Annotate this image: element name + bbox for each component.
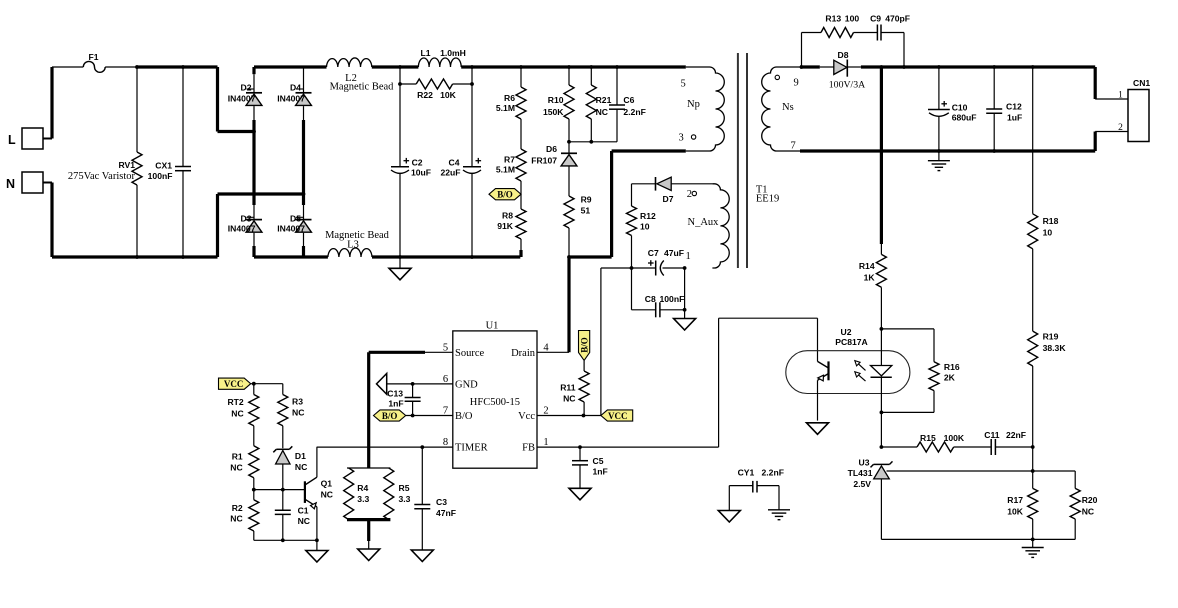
- wire drain column: [567, 257, 570, 352]
- junction snubber right: [902, 65, 906, 69]
- svg-text:F1: F1: [88, 52, 98, 62]
- wire AC-N to bridge: [218, 192, 304, 195]
- resistor R18 10: [1028, 67, 1059, 249]
- wire aux VCC tap: [601, 268, 632, 416]
- svg-text:R7: R7: [504, 155, 515, 165]
- capacitor C5 1nF: [572, 447, 608, 488]
- junction R17 bottom: [1031, 538, 1035, 542]
- svg-text:2: 2: [687, 189, 692, 200]
- svg-text:RV1: RV1: [118, 160, 135, 170]
- capacitor C1 NC: [275, 490, 310, 541]
- svg-text:R14: R14: [859, 261, 875, 271]
- wire C7-C8 left link: [631, 268, 633, 310]
- junction base row left: [252, 488, 256, 492]
- svg-text:Q1: Q1: [321, 479, 333, 489]
- svg-text:C2: C2: [412, 158, 423, 168]
- diode D1 NC zener: [273, 446, 307, 489]
- resistor R5 3.3: [384, 468, 411, 520]
- svg-text:470pF: 470pF: [885, 14, 910, 24]
- svg-text:TL431: TL431: [848, 468, 873, 478]
- capacitor C8 100nF: [632, 294, 685, 317]
- svg-text:10: 10: [640, 222, 650, 232]
- junction CX1 top: [181, 65, 185, 69]
- svg-text:PC817A: PC817A: [835, 337, 867, 347]
- svg-text:R18: R18: [1043, 216, 1059, 226]
- svg-text:NC: NC: [230, 463, 242, 473]
- inductor L2 Magnetic Bead: [327, 58, 395, 93]
- svg-text:R11: R11: [560, 383, 576, 393]
- svg-text:IN4007: IN4007: [228, 94, 256, 104]
- net flag B/O above R11: [579, 331, 590, 361]
- inductor L3 Magnetic Bead: [325, 230, 390, 257]
- junction C2 bottom: [398, 255, 402, 259]
- ground CY1 left: [718, 511, 740, 523]
- resistor R4 3.3: [344, 468, 370, 520]
- resistor R1 NC: [230, 446, 259, 490]
- svg-text:47uF: 47uF: [664, 248, 684, 258]
- capacitor C10 680uF: [928, 67, 977, 151]
- svg-text:C11: C11: [984, 430, 1000, 440]
- resistor R7 5.1M: [496, 119, 526, 181]
- ground aux: [674, 310, 696, 330]
- diode D8 100V/3A: [820, 50, 865, 91]
- svg-text:R9: R9: [581, 195, 592, 205]
- svg-text:R2: R2: [232, 503, 243, 513]
- svg-text:51: 51: [581, 206, 591, 216]
- junction C12 bottom: [992, 149, 996, 153]
- wire DC bus rail: [461, 65, 686, 68]
- wire N bottom rail: [52, 255, 218, 258]
- svg-text:2.2nF: 2.2nF: [623, 107, 645, 117]
- resistor R21 NC: [586, 67, 611, 142]
- svg-text:2.5V: 2.5V: [853, 479, 871, 489]
- svg-text:NC: NC: [563, 394, 575, 404]
- svg-text:GND: GND: [455, 380, 478, 391]
- svg-text:5.1M: 5.1M: [496, 165, 515, 175]
- snubber R13 100: [802, 14, 878, 68]
- svg-text:680uF: 680uF: [952, 113, 977, 123]
- wire CN1 pin1 drop: [1095, 67, 1128, 99]
- wire R4R5 gnd stub: [367, 520, 370, 549]
- junction base row right: [281, 488, 285, 492]
- net flag B/O at pin7: [374, 410, 406, 421]
- resistor R10 150K: [543, 67, 574, 142]
- svg-text:NC: NC: [231, 409, 243, 419]
- svg-text:B/O: B/O: [455, 411, 473, 422]
- wire AC-N corner up: [216, 194, 219, 257]
- wire U1 vcc pin2: [537, 415, 601, 417]
- svg-text:B/O: B/O: [382, 411, 398, 421]
- capacitor C13 1nF: [387, 384, 420, 416]
- connector CN1: [1118, 78, 1150, 142]
- svg-text:R19: R19: [1043, 332, 1059, 342]
- svg-text:FR107: FR107: [531, 156, 557, 166]
- svg-text:R8: R8: [502, 211, 513, 221]
- svg-text:Np: Np: [687, 99, 700, 110]
- resistor R12 10: [627, 184, 656, 268]
- junction R6 top: [519, 65, 523, 69]
- svg-text:NC: NC: [1082, 507, 1094, 517]
- ground Q1: [306, 540, 328, 562]
- wire R4R5 top bar: [347, 467, 390, 469]
- svg-text:10K: 10K: [1007, 507, 1024, 517]
- wire R4R5 bottom bar: [347, 518, 390, 521]
- wire clamp node bar: [569, 141, 617, 143]
- junction aux pin1 node: [683, 266, 687, 270]
- wire N stub: [43, 182, 52, 184]
- svg-text:U3: U3: [859, 458, 870, 468]
- capacitor C3 47nF: [414, 447, 456, 550]
- wire U1 timer pin8: [317, 446, 453, 448]
- svg-text:2: 2: [1118, 123, 1123, 133]
- wire U1 source pin5: [369, 351, 453, 353]
- junction RV1 top: [135, 65, 139, 69]
- svg-text:10uF: 10uF: [411, 168, 431, 178]
- junction C2 top: [398, 65, 402, 69]
- wire U1 b/o pin7: [406, 415, 453, 417]
- svg-text:91K: 91K: [497, 221, 514, 231]
- svg-text:D5: D5: [290, 214, 301, 224]
- svg-text:1K: 1K: [864, 273, 876, 283]
- junction RV1 bottom: [135, 255, 139, 259]
- net flag VCC at pin2: [601, 410, 633, 421]
- svg-text:1: 1: [1118, 91, 1123, 101]
- resistor R20 NC: [1070, 471, 1097, 539]
- svg-text:9: 9: [794, 78, 799, 89]
- junction R21 top: [589, 65, 593, 69]
- svg-text:NC: NC: [292, 408, 304, 418]
- svg-text:TIMER: TIMER: [455, 443, 488, 454]
- ground arrow U1 GND: [377, 374, 387, 395]
- wire N vertical: [50, 183, 53, 258]
- wire bridge top rail: [254, 65, 327, 68]
- svg-text:B/O: B/O: [497, 190, 513, 200]
- svg-text:1: 1: [686, 251, 691, 262]
- svg-text:D8: D8: [838, 50, 849, 60]
- svg-text:3: 3: [679, 133, 684, 144]
- junction R22 right: [470, 82, 474, 86]
- wire secondary gnd row: [881, 538, 1075, 540]
- wire LED feed column: [880, 67, 883, 244]
- diode D4 IN4007: [277, 67, 311, 105]
- ground opto emitter: [807, 423, 829, 435]
- junction R10 top: [567, 65, 571, 69]
- junction C8 right: [683, 308, 687, 312]
- wire bottom rail L3 to R8: [372, 255, 520, 258]
- svg-text:100V/3A: 100V/3A: [829, 80, 865, 91]
- svg-text:275Vac Varistor: 275Vac Varistor: [68, 171, 136, 182]
- wire TL431 anode: [880, 479, 882, 540]
- junction clamp R21: [589, 140, 593, 144]
- svg-text:10: 10: [1043, 228, 1053, 238]
- svg-text:R21: R21: [596, 95, 612, 105]
- transformer T1 primary Np: [679, 67, 725, 151]
- svg-text:C6: C6: [623, 95, 634, 105]
- junction C5 top: [578, 445, 582, 449]
- svg-text:R5: R5: [399, 483, 410, 493]
- resistor R17 10K: [1007, 471, 1037, 539]
- capacitor C6 2.2nF: [609, 67, 646, 142]
- opto light arrows: [855, 361, 866, 382]
- capacitor C11 22nF: [984, 430, 1032, 455]
- svg-text:EE19: EE19: [756, 193, 779, 204]
- svg-text:2: 2: [543, 406, 548, 417]
- svg-text:47nF: 47nF: [436, 508, 456, 518]
- svg-text:R17: R17: [1007, 495, 1023, 505]
- wire top rail thick: [136, 65, 218, 68]
- svg-text:100: 100: [845, 14, 860, 24]
- wire AC-L to bridge: [218, 130, 255, 133]
- resistor R16 2K: [881, 329, 959, 413]
- junction clamp R10: [567, 140, 571, 144]
- svg-text:100K: 100K: [944, 433, 965, 443]
- svg-text:NC: NC: [295, 462, 307, 472]
- svg-text:7: 7: [443, 406, 448, 417]
- capacitor C7 47uF: [648, 248, 685, 276]
- svg-text:Vcc: Vcc: [518, 411, 535, 422]
- diode D6 FR107: [531, 142, 577, 166]
- svg-text:L3: L3: [347, 240, 359, 251]
- diode D3 IN4007: [228, 214, 262, 234]
- transformer core: [738, 53, 747, 268]
- wire aux node row: [632, 267, 656, 269]
- svg-text:150K: 150K: [543, 107, 564, 117]
- earth CY1 right: [768, 510, 790, 520]
- resistor R9 51: [564, 166, 592, 257]
- wire base row: [254, 489, 305, 491]
- junction bridge L input: [252, 130, 256, 134]
- svg-text:1.0mH: 1.0mH: [440, 48, 466, 58]
- label pin 1: [686, 251, 691, 262]
- net flag VCC left: [219, 378, 251, 389]
- svg-text:R13: R13: [825, 14, 841, 24]
- svg-text:5.1M: 5.1M: [496, 103, 515, 113]
- svg-text:L: L: [8, 133, 16, 147]
- junction C4 top: [470, 65, 474, 69]
- junction C10 bottom: [937, 149, 941, 153]
- svg-text:D3: D3: [241, 214, 252, 224]
- svg-text:38.3K: 38.3K: [1043, 343, 1067, 353]
- resistor R14 1K: [859, 244, 887, 329]
- transformer T1 secondary Ns: [762, 67, 799, 152]
- wire D4-D5 column: [303, 106, 305, 220]
- svg-text:100nF: 100nF: [148, 171, 173, 181]
- svg-text:D1: D1: [295, 451, 306, 461]
- svg-text:10K: 10K: [440, 90, 457, 100]
- svg-text:B/O: B/O: [579, 337, 589, 353]
- resistor R15 100K: [881, 433, 991, 452]
- wire top rail thin: [52, 66, 136, 68]
- svg-text:R15: R15: [920, 433, 936, 443]
- svg-text:7: 7: [791, 141, 796, 152]
- wire U1 gnd pin6: [387, 383, 453, 385]
- junction drain node: [567, 255, 571, 259]
- wire L stub: [43, 138, 52, 140]
- svg-text:L1: L1: [420, 48, 430, 58]
- wire U1 drain pin4: [537, 351, 569, 353]
- svg-text:N: N: [6, 177, 15, 191]
- svg-text:R1: R1: [232, 452, 243, 462]
- svg-text:CY1: CY1: [738, 468, 755, 478]
- junction R22 left: [398, 82, 402, 86]
- svg-text:CN1: CN1: [1133, 78, 1150, 88]
- svg-text:D6: D6: [546, 144, 557, 154]
- ground secondary: [928, 151, 950, 171]
- svg-text:IN4007: IN4007: [277, 94, 305, 104]
- svg-text:C10: C10: [952, 103, 968, 113]
- junction LED cathode: [880, 411, 884, 415]
- svg-text:D4: D4: [290, 83, 301, 93]
- wire TL431 ref: [887, 470, 1076, 472]
- junction C1 bottom: [281, 538, 285, 542]
- wire D2-D3 column: [253, 106, 255, 220]
- svg-text:NC: NC: [321, 490, 333, 500]
- wire secondary bottom rail: [777, 150, 1096, 152]
- diode D5 IN4007: [277, 214, 311, 234]
- opto LED: [871, 329, 892, 413]
- wire secondary top rail: [861, 65, 1095, 68]
- svg-text:R3: R3: [292, 397, 303, 407]
- wire L vertical: [50, 67, 53, 139]
- inductor L1 1.0mH: [418, 48, 465, 67]
- diode D2 IN4007: [228, 67, 262, 105]
- capacitor C2 10uF: [391, 84, 431, 257]
- wire source column: [367, 352, 370, 468]
- svg-text:C5: C5: [593, 456, 604, 466]
- wire CN1 pin2 rise: [1095, 132, 1128, 152]
- svg-text:R20: R20: [1082, 495, 1098, 505]
- terminal L: [8, 128, 43, 149]
- svg-text:VCC: VCC: [608, 411, 628, 421]
- net flag B/O at R7-R8: [489, 189, 521, 200]
- junction LED anode: [880, 327, 884, 331]
- svg-text:NC: NC: [298, 516, 310, 526]
- terminal N: [6, 172, 43, 193]
- svg-text:C1: C1: [298, 506, 309, 516]
- wire Ns pin9: [777, 66, 820, 68]
- resistor R11 NC: [560, 360, 589, 415]
- earth secondary gnd: [1022, 539, 1044, 557]
- svg-text:D7: D7: [663, 194, 674, 204]
- svg-text:R4: R4: [357, 483, 368, 493]
- svg-text:22nF: 22nF: [1006, 430, 1026, 440]
- junction LED feed top: [880, 65, 884, 69]
- junction ref R17: [1031, 469, 1035, 473]
- junction R15 left: [880, 445, 884, 449]
- wire bridge bottom rail: [254, 255, 328, 258]
- wire Np pin3 to drain: [569, 151, 686, 257]
- capacitor C4 22uF: [440, 84, 481, 257]
- svg-text:1uF: 1uF: [1007, 113, 1022, 123]
- svg-text:Source: Source: [455, 348, 484, 359]
- junction R11 bottom: [582, 414, 586, 418]
- wire LED to TL431: [880, 412, 882, 447]
- junction C3 top: [420, 445, 424, 449]
- junction RT2 top: [252, 382, 256, 386]
- svg-text:RT2: RT2: [227, 397, 243, 407]
- svg-text:5: 5: [681, 79, 686, 90]
- junction C4 bottom: [470, 255, 474, 259]
- junction Q1 emitter: [315, 538, 319, 542]
- junction R12 bottom: [630, 266, 634, 270]
- junction CX1 bottom: [181, 255, 185, 259]
- junction divider C11: [1031, 445, 1035, 449]
- wire FB riser: [719, 318, 818, 447]
- svg-text:100nF: 100nF: [660, 294, 685, 304]
- opto transistor: [818, 361, 829, 420]
- junction snubber left: [800, 65, 804, 69]
- junction C10 top: [937, 65, 941, 69]
- svg-text:N_Aux: N_Aux: [688, 217, 720, 228]
- ground C3: [411, 550, 433, 562]
- svg-text:NC: NC: [596, 107, 608, 117]
- resistor R19 38.3K: [1028, 249, 1067, 471]
- resistor R6 5.1M: [496, 67, 526, 119]
- svg-text:VCC: VCC: [224, 379, 244, 389]
- label T1 EE19: [756, 185, 779, 205]
- capacitor C12 1uF: [986, 67, 1022, 151]
- junction C6 top: [615, 65, 619, 69]
- svg-text:C9: C9: [870, 14, 881, 24]
- ground R4R5: [358, 549, 380, 561]
- svg-text:C7: C7: [648, 248, 659, 258]
- svg-text:C4: C4: [449, 158, 460, 168]
- junction C12 top: [992, 65, 996, 69]
- svg-text:Ns: Ns: [782, 102, 794, 113]
- fuse F1: [83, 52, 105, 72]
- svg-text:C3: C3: [436, 497, 447, 507]
- svg-text:1nF: 1nF: [593, 467, 608, 477]
- wire AC-L corner down: [216, 67, 219, 132]
- diode D7: [632, 177, 713, 204]
- wire D5 anode to rail: [303, 233, 305, 257]
- svg-text:C13: C13: [387, 389, 403, 399]
- wire L2 to L1 node: [372, 65, 419, 68]
- svg-text:FB: FB: [522, 443, 535, 454]
- svg-text:1nF: 1nF: [388, 399, 403, 409]
- svg-text:C12: C12: [1006, 102, 1022, 112]
- svg-text:2.2nF: 2.2nF: [762, 468, 784, 478]
- resistor R2 NC: [230, 490, 259, 541]
- shunt U3 TL431 2.5V: [848, 458, 893, 490]
- svg-text:IN4007: IN4007: [277, 224, 305, 234]
- svg-text:Drain: Drain: [511, 348, 536, 359]
- junction C13 bottom: [411, 414, 415, 418]
- transformer T1 aux N_Aux: [687, 184, 729, 268]
- svg-text:IN4007: IN4007: [228, 224, 256, 234]
- svg-text:R16: R16: [944, 362, 960, 372]
- svg-text:CX1: CX1: [155, 161, 172, 171]
- ground primary bus: [389, 257, 411, 280]
- op-amp U1 HFC500-15 box: [443, 321, 550, 469]
- resistor R22 10K: [400, 67, 472, 100]
- svg-text:3.3: 3.3: [357, 494, 369, 504]
- svg-text:NC: NC: [230, 514, 242, 524]
- svg-text:U1: U1: [486, 321, 499, 332]
- junction C13 top: [411, 382, 415, 386]
- svg-text:Magnetic Bead: Magnetic Bead: [330, 82, 395, 93]
- svg-text:R12: R12: [640, 211, 656, 221]
- svg-text:R10: R10: [548, 95, 564, 105]
- thermistor RT2 NC: [227, 384, 258, 446]
- svg-text:U2: U2: [841, 327, 852, 337]
- resistor R3 NC: [278, 384, 305, 449]
- junction R18 top: [1031, 65, 1035, 69]
- opto U2 PC817A body: [786, 327, 910, 394]
- svg-text:C8: C8: [645, 294, 656, 304]
- wire emitter bottom row: [254, 539, 317, 541]
- svg-text:R22: R22: [417, 90, 433, 100]
